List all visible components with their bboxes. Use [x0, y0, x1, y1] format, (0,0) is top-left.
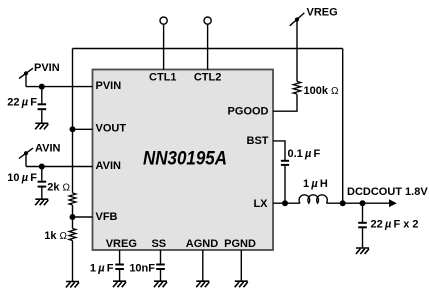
- capacitor C4 22uF x 2: [358, 203, 367, 247]
- wire SS pin to C6: [160, 250, 162, 264]
- wire R3 to PGOOD: [273, 94, 297, 111]
- svg-text:AVIN: AVIN: [35, 143, 61, 155]
- svg-text:10nF: 10nF: [129, 263, 155, 275]
- junction node feedback rail / LX out: [340, 200, 346, 206]
- ground (C6): [154, 281, 167, 287]
- svg-text:22 µ F: 22 µ F: [7, 97, 37, 109]
- capacitor C1 22uF: [38, 87, 47, 123]
- svg-text:1k Ω: 1k Ω: [44, 230, 67, 242]
- inductor L1 1uH: [299, 195, 327, 203]
- junction node VOUT/rail: [70, 126, 76, 132]
- wire PVIN to pin: [26, 86, 93, 88]
- svg-text:PVIN: PVIN: [34, 62, 60, 74]
- svg-text:VFB: VFB: [96, 211, 118, 223]
- wire inductor to output: [326, 202, 389, 204]
- input terminal PVIN: [19, 68, 33, 86]
- resistor R3 100k: [293, 82, 301, 94]
- input terminal AVIN: [19, 148, 33, 166]
- capacitor C3 0.1uF: [281, 161, 289, 203]
- svg-text:PGND: PGND: [224, 238, 256, 250]
- svg-text:1 µ H: 1 µ H: [303, 178, 328, 190]
- wire R1 to VFB node: [72, 205, 74, 229]
- svg-text:CTL1: CTL1: [149, 72, 177, 84]
- terminal CTL2: [204, 17, 211, 70]
- ground (C2): [35, 199, 48, 205]
- input terminal VREG: [290, 13, 305, 82]
- svg-text:VOUT: VOUT: [96, 123, 127, 135]
- svg-text:AGND: AGND: [186, 238, 218, 250]
- wire left rail vertical (VOUT feedback): [72, 49, 74, 194]
- wire R2 to ground: [72, 241, 74, 282]
- svg-text:10 µ F: 10 µ F: [7, 172, 37, 184]
- svg-text:DCDCOUT 1.8V: DCDCOUT 1.8V: [347, 186, 428, 198]
- junction node C4 / LX out: [360, 200, 366, 206]
- svg-text:LX: LX: [253, 198, 268, 210]
- ground (R2): [66, 282, 79, 288]
- ground (C5): [113, 281, 126, 287]
- svg-text:AVIN: AVIN: [96, 160, 122, 172]
- wire BST to C3: [273, 141, 285, 160]
- svg-text:PVIN: PVIN: [96, 80, 122, 92]
- svg-text:2k Ω: 2k Ω: [47, 182, 70, 194]
- wire PGND pin to ground: [240, 250, 242, 281]
- wire right rail: [342, 49, 344, 204]
- svg-text:PGOOD: PGOOD: [228, 106, 269, 118]
- svg-text:VREG: VREG: [307, 7, 338, 19]
- ground (PGND): [235, 281, 248, 287]
- resistor R1 2k: [69, 193, 76, 205]
- capacitor C6 10nF: [156, 265, 165, 281]
- junction node AVIN/C2: [39, 164, 45, 170]
- ground (C4): [356, 248, 369, 254]
- wire VFB to pin: [73, 216, 93, 218]
- svg-text:100k Ω: 100k Ω: [304, 85, 340, 97]
- capacitor C2 10uF: [38, 167, 47, 199]
- wire top rail: [73, 48, 343, 50]
- svg-text:1 µ F: 1 µ F: [90, 263, 114, 275]
- resistor R2 1k: [69, 229, 76, 241]
- junction node VFB: [70, 214, 76, 220]
- IC U1 NN30195A body: [93, 70, 274, 251]
- svg-text:22 µ F x 2: 22 µ F x 2: [371, 219, 419, 231]
- wire VREG pin to C5: [119, 250, 121, 264]
- capacitor C5 1uF: [115, 265, 124, 281]
- svg-text:VREG: VREG: [106, 238, 137, 250]
- svg-text:NN30195A: NN30195A: [143, 149, 227, 170]
- svg-text:0.1 µ F: 0.1 µ F: [288, 148, 321, 160]
- wire LX to inductor: [273, 202, 300, 204]
- svg-text:BST: BST: [247, 135, 269, 147]
- wire AVIN to pin: [26, 166, 93, 168]
- wire AGND pin to ground: [202, 250, 204, 281]
- svg-text:SS: SS: [151, 238, 166, 250]
- output arrow DCDCOUT: [389, 199, 397, 207]
- junction node BST cap / LX: [282, 200, 288, 206]
- ground (C1): [35, 123, 48, 129]
- svg-text:CTL2: CTL2: [194, 72, 222, 84]
- terminal CTL1: [160, 17, 167, 70]
- junction node PVIN/C1: [39, 84, 45, 90]
- wire VOUT to pin: [73, 128, 93, 130]
- ground (AGND): [196, 281, 209, 287]
